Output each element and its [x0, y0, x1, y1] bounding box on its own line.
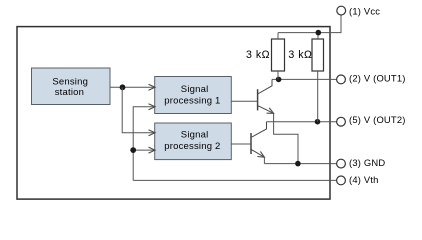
terminal (4) Vth: [337, 176, 346, 185]
resistor R1 (left 3 kOhm): [272, 33, 285, 80]
node: emitter return / GND junction: [295, 161, 301, 167]
Q1 emitter arrowhead: [267, 108, 274, 113]
node: Vth branch junction: [130, 147, 136, 153]
wire: Q1 emitter down and over to GND line: [274, 113, 298, 163]
wire: Vth horizontal line to terminal (4): [133, 179, 337, 181]
terminal (1) Vcc: [337, 6, 346, 15]
svg-text:Signal: Signal: [181, 130, 209, 141]
node: sensing output junction: [120, 84, 126, 90]
node: R2 bottom / OUT2 junction: [315, 119, 321, 125]
svg-text:processing 2: processing 2: [164, 141, 220, 152]
svg-text:(1) Vcc: (1) Vcc: [349, 5, 380, 16]
wire: V (OUT1) line: [272, 78, 337, 80]
block: Signal processing 1: [155, 77, 232, 114]
transistor Q1 (NPN): [258, 79, 273, 112]
arrowhead into Signal processing 1 input 1: [149, 84, 156, 90]
IC outline box: [17, 27, 330, 200]
terminal (3) GND: [337, 159, 346, 168]
wire: Signal processing 2 output to Q2 base: [231, 143, 250, 145]
transistor Q2 (NPN): [251, 122, 267, 157]
wire: GND line to terminal (3): [264, 163, 337, 165]
wire: sensing station output to Signal processing 1 input: [110, 86, 155, 88]
svg-text:(2) V (OUT1): (2) V (OUT1): [349, 73, 406, 84]
arrowhead into Signal processing 2 input 1: [149, 130, 156, 136]
svg-text:3 kΩ: 3 kΩ: [246, 49, 270, 61]
svg-text:(3) GND: (3) GND: [349, 157, 385, 168]
wire: junction down to Signal processing 2 input 1: [122, 87, 155, 133]
node: R2 top / Vcc rail junction: [316, 30, 322, 36]
node: R1 bottom / OUT1 junction: [276, 77, 282, 83]
svg-text:Signal: Signal: [181, 84, 209, 95]
wire: Vcc rail: [278, 15, 341, 32]
wire: branch to Signal processing 2 input 2: [133, 149, 155, 151]
Q2 emitter arrowhead: [257, 151, 264, 157]
wire: Q2 emitter down to GND line: [263, 157, 265, 163]
arrowhead into Signal processing 1 input 2: [149, 104, 156, 110]
wire: Signal processing 1 output to Q1 base: [231, 100, 257, 102]
arrowhead into Signal processing 2 input 2: [149, 147, 156, 153]
terminal (2) V (OUT1): [337, 75, 346, 84]
resistor R2 (right 3 kOhm): [312, 33, 324, 122]
svg-text:station: station: [55, 87, 84, 98]
wire: Vth riser up to Signal processing 1 input 2: [133, 107, 155, 181]
svg-text:processing 1: processing 1: [164, 96, 220, 107]
wire: V (OUT2) line: [267, 121, 338, 123]
block: Sensing station: [32, 68, 111, 105]
terminal (5) V (OUT2): [337, 117, 346, 126]
block: Signal processing 2: [155, 123, 232, 160]
svg-text:(5) V (OUT2): (5) V (OUT2): [349, 114, 406, 125]
svg-text:3 kΩ: 3 kΩ: [288, 49, 312, 61]
svg-text:(4) Vth: (4) Vth: [349, 174, 379, 185]
